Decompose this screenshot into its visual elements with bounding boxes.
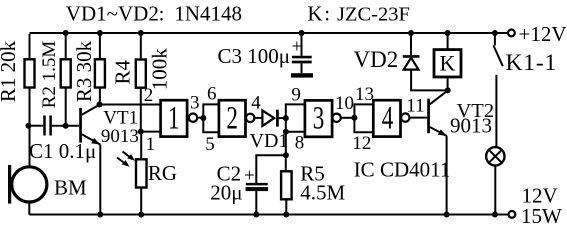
node +12V terminal: [508, 30, 515, 37]
wire to VD1: [254, 117, 262, 119]
svg-text:+: +: [292, 37, 303, 58]
svg-text:R2 1.5M: R2 1.5M: [39, 41, 60, 109]
svg-text:100k: 100k: [147, 48, 171, 91]
wire top rail: [30, 32, 509, 34]
wire pin1: [141, 131, 161, 133]
wire to gate4 inputs: [354, 104, 373, 132]
svg-text:4: 4: [251, 93, 261, 114]
svg-text:9: 9: [291, 85, 301, 106]
bubble gate3: [332, 114, 340, 122]
relay K: [445, 30, 451, 36]
capacitor C3: [299, 30, 305, 36]
bubble gate2: [246, 114, 254, 122]
gate U4: [373, 100, 400, 136]
svg-text:2: 2: [144, 85, 154, 106]
gate U3: [305, 100, 332, 136]
node C2/R5: [283, 152, 289, 158]
svg-text:1: 1: [146, 134, 156, 155]
svg-text:12: 12: [352, 133, 371, 154]
svg-text::: :: [159, 1, 165, 25]
wire to gate3 inputs: [286, 104, 305, 131]
resistor R1: [25, 59, 35, 87]
svg-text:VD2: VD2: [354, 47, 399, 72]
svg-text:K: K: [440, 51, 456, 76]
svg-text:5: 5: [205, 134, 215, 155]
svg-text:9013: 9013: [450, 113, 492, 137]
node C1 junction: [26, 123, 32, 129]
diode VD1: [262, 110, 274, 126]
svg-text:K1-1: K1-1: [506, 50, 558, 76]
svg-text:13: 13: [355, 84, 374, 105]
svg-text:9013: 9013: [101, 126, 139, 147]
wire to C1: [29, 125, 44, 127]
svg-text:20μ: 20μ: [210, 181, 242, 205]
svg-text:VD1: VD1: [250, 130, 289, 152]
node gate3 out: [351, 115, 357, 121]
svg-text:11: 11: [406, 96, 424, 117]
node gate1 out: [200, 115, 206, 121]
wire to VT2 base: [410, 117, 428, 119]
ground: [291, 73, 313, 77]
resistor R4: [138, 30, 144, 36]
bubble gate1: [189, 114, 197, 122]
resistor R3: [97, 30, 103, 36]
svg-text:JZC-23F: JZC-23F: [337, 3, 410, 25]
svg-text:R4: R4: [111, 59, 135, 84]
node VT2 collector: [445, 87, 451, 93]
svg-text:6: 6: [207, 84, 217, 105]
wire bottom rail: [29, 214, 508, 216]
capacitor C2: [256, 155, 286, 183]
gate U2: [219, 100, 246, 136]
resistor R5: [285, 132, 288, 215]
svg-text:K: K: [307, 1, 322, 25]
svg-text:3: 3: [313, 101, 325, 137]
svg-text:15W: 15W: [521, 204, 562, 228]
diode VD2: [408, 30, 414, 36]
node VT1 collector: [97, 102, 103, 108]
svg-text:IC CD4011: IC CD4011: [354, 157, 451, 181]
wire C1 to VT1 base: [52, 125, 79, 127]
node 12V terminal: [509, 211, 516, 218]
gate U1: [161, 100, 188, 136]
light arrows: [117, 152, 133, 166]
svg-text:C3 100μ: C3 100μ: [218, 44, 291, 68]
svg-text:4: 4: [382, 101, 394, 137]
svg-text:1: 1: [168, 101, 180, 137]
wire pin2: [100, 104, 161, 106]
wire left column: [28, 34, 30, 215]
resistor R2: [63, 30, 69, 36]
node pin1: [138, 129, 144, 135]
svg-text:BM: BM: [54, 175, 87, 199]
svg-text:RG: RG: [148, 161, 177, 185]
bubble gate4: [401, 113, 409, 121]
svg-text:2: 2: [226, 101, 238, 137]
svg-text:VD1~VD2: VD1~VD2: [66, 1, 159, 25]
transistor VT1: [79, 108, 82, 143]
svg-text:+12V: +12V: [519, 22, 567, 46]
node pin9: [283, 115, 289, 121]
svg-text:+: +: [244, 166, 255, 187]
svg-text:R1 20k: R1 20k: [0, 40, 20, 102]
svg-text:C1 0.1μ: C1 0.1μ: [29, 139, 96, 163]
switch K1-1: [492, 30, 498, 36]
lamp: [486, 147, 504, 165]
microphone BM: [12, 167, 47, 202]
wire to gate2 inputs: [203, 104, 219, 132]
photoresistor RG: [140, 132, 142, 215]
svg-text:10: 10: [335, 93, 354, 114]
transistor VT2: [427, 99, 430, 134]
svg-text:4.5M: 4.5M: [300, 181, 345, 205]
capacitor C1: [45, 116, 51, 136]
svg-text:8: 8: [295, 132, 305, 153]
svg-text:3: 3: [190, 93, 200, 114]
svg-text::: :: [324, 1, 330, 25]
svg-text:R3 30k: R3 30k: [72, 40, 96, 102]
svg-text:1N4148: 1N4148: [174, 1, 242, 25]
